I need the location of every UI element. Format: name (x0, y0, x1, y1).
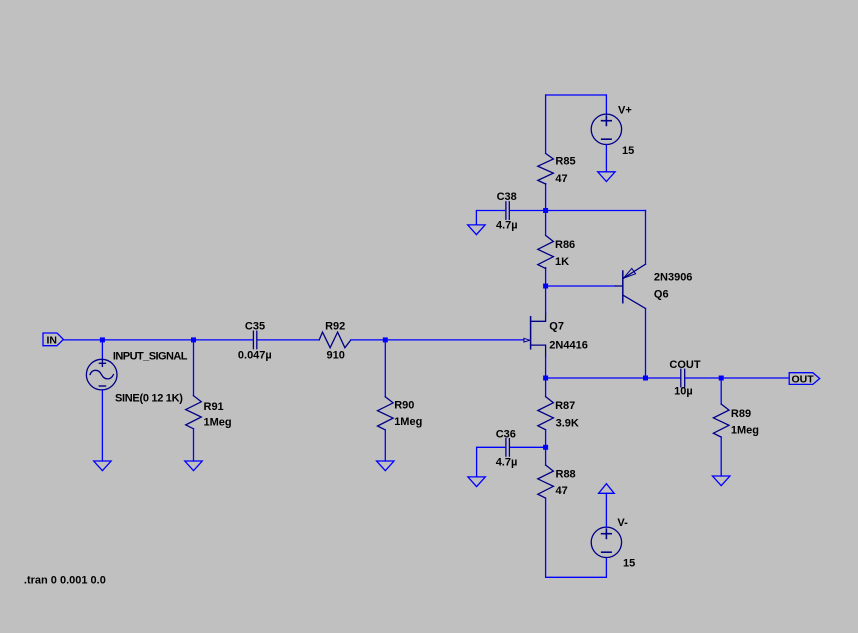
transistor Q6 (PNP 2N3906) (623, 264, 646, 308)
voltage source V1 INPUT_SIGNAL (86, 359, 117, 390)
svg-text:2N3906: 2N3906 (654, 272, 693, 284)
node B junction (191, 337, 196, 342)
wire Q6 collector down to node G (645, 309, 647, 379)
wire COUT to node H (685, 377, 721, 379)
resistor R87 (538, 397, 554, 430)
port IN (43, 333, 63, 346)
voltage source V+ (591, 114, 621, 144)
ground at C36 (468, 477, 485, 487)
wire node A to V1 top (101, 340, 103, 360)
svg-text:R88: R88 (556, 469, 576, 481)
wire node F down to R87 (545, 378, 547, 397)
svg-text:.tran 0 0.001 0.0: .tran 0 0.001 0.0 (24, 575, 106, 587)
svg-text:1Meg: 1Meg (731, 425, 759, 437)
wire C38 to ground (476, 211, 505, 225)
svg-text:R89: R89 (731, 408, 751, 420)
svg-text:C38: C38 (497, 191, 517, 203)
wire R89 to ground (720, 437, 722, 476)
transistor Q7 (JFET 2N4416) (524, 313, 546, 356)
ground above V- (rotated) (599, 484, 615, 494)
svg-text:V+: V+ (618, 104, 632, 116)
svg-text:OUT: OUT (792, 374, 815, 386)
wire node E to Q6 emitter drop (546, 210, 646, 212)
node H junction (719, 376, 724, 381)
svg-text:INPUT_SIGNAL: INPUT_SIGNAL (113, 351, 188, 363)
wire R90 to ground (384, 430, 386, 461)
wire V- top to ground flag (605, 493, 607, 527)
svg-text:47: 47 (556, 485, 568, 497)
wire node E to C38 (510, 210, 546, 212)
node G junction (Q6 collector) (643, 376, 648, 381)
wire V+ bottom to ground (605, 145, 607, 172)
ground under R91 (185, 461, 202, 471)
wire node B to C35 (194, 339, 253, 341)
ground under V+ (598, 172, 615, 182)
resistor R89 (713, 404, 729, 437)
svg-text:Q6: Q6 (654, 289, 669, 301)
svg-text:15: 15 (623, 558, 635, 570)
ground under R89 (713, 476, 730, 486)
port OUT (789, 373, 820, 385)
wire node G to COUT (646, 377, 681, 379)
svg-text:0.047µ: 0.047µ (238, 349, 272, 361)
node C junction (383, 337, 388, 342)
resistor R90 (377, 397, 393, 430)
svg-text:R92: R92 (325, 321, 345, 333)
resistor R86 (538, 235, 554, 268)
capacitor C38 (506, 202, 509, 220)
wire Q6 emitter up to C38 rail (645, 211, 647, 265)
svg-text:IN: IN (47, 335, 58, 347)
wire Q7 source down to node F (545, 356, 547, 378)
wire node D up to R86 (545, 268, 547, 286)
svg-text:R86: R86 (555, 239, 575, 251)
ground under R90 (377, 461, 394, 471)
svg-text:910: 910 (327, 349, 345, 361)
wire R87 to node I (545, 430, 547, 448)
svg-text:10µ: 10µ (674, 385, 693, 397)
wire top rail (546, 94, 607, 96)
wire C35 to R92 (257, 339, 319, 341)
Q6 base lead (615, 285, 622, 287)
wire C36 to ground (477, 447, 506, 477)
svg-text:4.7µ: 4.7µ (496, 456, 518, 468)
wire R85 top (545, 95, 547, 153)
svg-text:R90: R90 (394, 400, 414, 412)
ground at C38 (468, 225, 485, 235)
voltage source V- (591, 527, 621, 557)
node A junction (100, 337, 105, 342)
wire V+ top stub (605, 95, 607, 115)
svg-text:R91: R91 (204, 401, 224, 413)
svg-text:2N4416: 2N4416 (549, 339, 588, 351)
svg-text:3.9K: 3.9K (556, 418, 579, 430)
svg-text:15: 15 (622, 145, 634, 157)
svg-text:C36: C36 (496, 428, 516, 440)
wire node H to OUT port (721, 377, 789, 379)
wire node I down to R88 (545, 447, 547, 465)
capacitor C35 (253, 331, 256, 349)
svg-text:C35: C35 (245, 321, 265, 333)
svg-text:1K: 1K (555, 256, 569, 268)
node E junction (C38 rail) (543, 208, 548, 213)
resistor R85 (538, 153, 554, 184)
svg-text:1Meg: 1Meg (394, 416, 422, 428)
svg-text:COUT: COUT (669, 359, 700, 371)
svg-text:1Meg: 1Meg (204, 416, 232, 428)
node D junction (Q6 base node) (543, 284, 548, 289)
resistor R91 (186, 396, 202, 429)
resistor R92 (319, 332, 351, 348)
wire V1 bottom to ground (101, 390, 103, 461)
wire node I to C36 (510, 446, 546, 448)
capacitor C36 (506, 439, 510, 457)
wire node C down to R90 (384, 340, 386, 397)
wire node E up to R85 (545, 184, 547, 211)
svg-text:R85: R85 (555, 156, 575, 168)
wire R91 to ground (193, 429, 195, 461)
wire R88 down to bottom rail (546, 498, 607, 577)
capacitor COUT (681, 369, 685, 387)
wire node F to node G (546, 377, 646, 379)
wire IN to node A (63, 339, 102, 341)
ground under V1 (94, 461, 111, 471)
wire R92 to node C (351, 339, 385, 341)
wire node D to Q6 base (546, 285, 616, 287)
resistor R88 (538, 465, 554, 498)
svg-text:SINE(0 12 1K): SINE(0 12 1K) (115, 392, 183, 404)
wire node C to Q7 gate (385, 339, 524, 341)
wire Q7 drain up to node D (545, 286, 547, 314)
svg-text:R87: R87 (555, 400, 575, 412)
node F junction (output rail left) (543, 376, 548, 381)
wire node A to node B (102, 339, 193, 341)
wire R86 top to node E (545, 211, 547, 236)
wire node B down to R91 (193, 340, 195, 396)
svg-text:4.7µ: 4.7µ (496, 220, 518, 232)
svg-text:V-: V- (617, 517, 628, 529)
svg-text:Q7: Q7 (549, 320, 564, 332)
node I junction (C36 rail) (543, 445, 548, 450)
svg-text:47: 47 (555, 173, 567, 185)
wire node H down to R89 (720, 378, 722, 404)
